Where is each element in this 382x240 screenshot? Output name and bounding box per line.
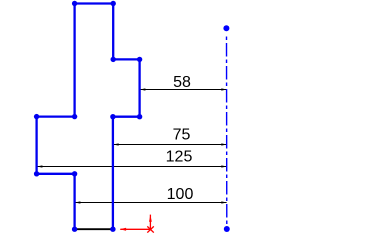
svg-text:75: 75 <box>173 127 191 144</box>
svg-text:100: 100 <box>167 186 194 203</box>
svg-text:125: 125 <box>166 149 193 166</box>
svg-text:58: 58 <box>173 74 191 91</box>
